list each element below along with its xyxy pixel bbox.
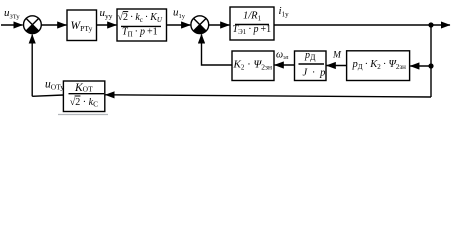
svg-text:pД: pД	[304, 50, 316, 62]
svg-text:J · p: J · p	[303, 68, 326, 79]
svg-text:ωэл: ωэл	[276, 50, 289, 62]
svg-text:pД · K2 · Ψ2зн: pД · K2 · Ψ2зн	[352, 59, 407, 71]
svg-text:uОТу: uОТу	[45, 79, 64, 92]
svg-text:M: M	[332, 51, 342, 61]
svg-text:KОТ: KОТ	[74, 82, 93, 94]
svg-text:TП · p +1: TП · p +1	[122, 27, 158, 39]
svg-text:1/R1: 1/R1	[243, 11, 262, 23]
svg-text:uуу: uуу	[100, 7, 113, 20]
svg-text:uЗТу: uЗТу	[4, 7, 20, 21]
svg-text:WРТу: WРТу	[71, 20, 93, 33]
svg-text:TЭ1 · p +1: TЭ1 · p +1	[233, 24, 272, 36]
svg-text:i1у: i1у	[279, 5, 290, 19]
svg-text:u1у: u1у	[173, 6, 186, 19]
svg-text:√2 · kс · KU: √2 · kс · KU	[118, 12, 163, 24]
svg-text:K2 · Ψ2зн: K2 · Ψ2зн	[233, 59, 272, 72]
svg-text:√2 · kС: √2 · kС	[70, 97, 98, 109]
